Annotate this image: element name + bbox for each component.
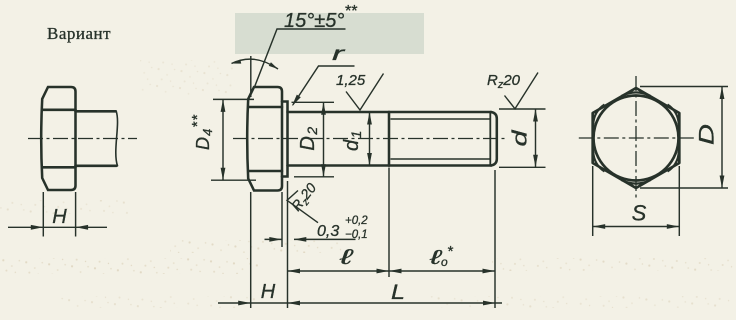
hex center lines [579, 137, 694, 139]
paper speckle texture [0, 258, 258, 274]
Rz20 roughness at tip [505, 73, 539, 109]
bolt tip [491, 112, 497, 166]
svg-text:1,25: 1,25 [336, 72, 366, 89]
svg-text:−0,1: −0,1 [345, 229, 368, 241]
l0 dimension [494, 170, 496, 308]
chamfer circle [594, 96, 679, 181]
d dimension [499, 109, 546, 167]
D4 dimension [211, 99, 256, 180]
corner chamfer arcs [593, 92, 679, 183]
d1 dimension [369, 112, 371, 166]
svg-text:D: D [696, 124, 719, 145]
svg-text:d: d [510, 129, 532, 146]
thread major lines [389, 112, 491, 166]
variant shank break line [116, 111, 118, 166]
main center line [233, 138, 508, 140]
hexagon [593, 88, 680, 188]
svg-text:L: L [391, 281, 405, 304]
svg-text:0,3: 0,3 [317, 223, 339, 240]
variant H extension lines [43, 192, 75, 237]
svg-text:ℓ: ℓ [338, 246, 354, 269]
S dimension [593, 166, 680, 236]
svg-text:Rz20: Rz20 [487, 72, 521, 91]
thread start line [388, 112, 391, 166]
variant head outline [41, 87, 75, 190]
angle arc [232, 59, 279, 69]
head face lines [249, 107, 282, 171]
variant shank [76, 111, 117, 166]
svg-text:Вариант: Вариант [47, 24, 111, 43]
shank [288, 112, 390, 166]
bolt head [247, 87, 282, 191]
variant H dimension line [8, 226, 107, 228]
variant center line [28, 138, 137, 140]
l dimension [388, 168, 390, 278]
svg-text:H: H [52, 206, 67, 228]
thread minor lines [391, 119, 491, 159]
variant head face lines [42, 110, 75, 168]
1,25 roughness mark [346, 74, 384, 111]
r leader [293, 66, 355, 105]
svg-text:r: r [332, 44, 345, 65]
svg-text:S: S [632, 201, 647, 226]
svg-text:H: H [261, 281, 276, 303]
H L bottom dimensions [250, 192, 252, 308]
0,3 dimension [282, 181, 288, 308]
washer face [282, 102, 288, 177]
svg-text:+0,2: +0,2 [345, 215, 368, 227]
D dimension [640, 87, 728, 189]
Rz20 roughness rotated at head [287, 191, 318, 223]
15 degree leader [250, 56, 252, 97]
tip chamfer line [489, 113, 491, 166]
highlight band [235, 13, 424, 54]
D2 dimension [292, 102, 335, 177]
